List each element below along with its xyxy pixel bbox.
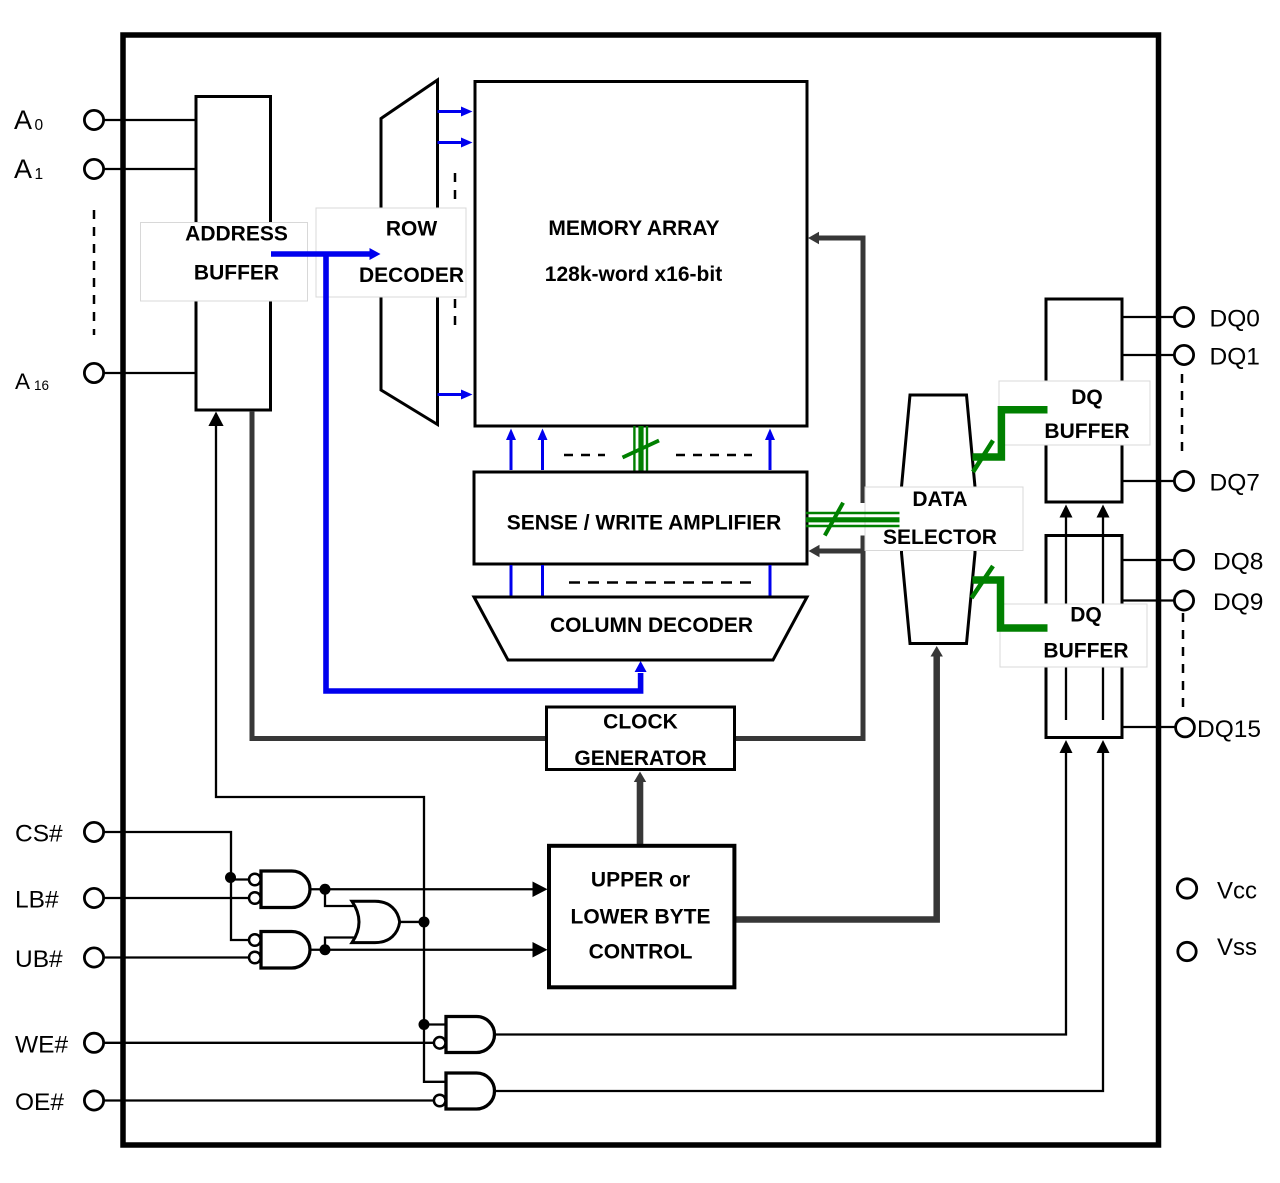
svg-text:BUFFER: BUFFER (1043, 640, 1128, 663)
gate G4 AND WE (446, 1017, 495, 1053)
pin Vss (1178, 942, 1196, 960)
svg-text:CS#: CS# (15, 821, 63, 848)
wire DQ15 (1121, 726, 1176, 728)
pin CS# (84, 822, 103, 841)
wire DQ8 (1122, 559, 1174, 561)
wire OR output (398, 921, 424, 923)
pin DQ1 (1174, 345, 1193, 364)
wire OR output down to WE/OE gates (424, 922, 446, 1082)
blue arrow row decoder to memory 3 (438, 390, 473, 400)
svg-text:DQ7: DQ7 (1210, 470, 1260, 497)
green data bus triple vertical (634, 426, 647, 472)
pin A0 (84, 110, 103, 129)
gate G1 negative-AND CS/LB (261, 871, 310, 908)
svg-text:SELECTOR: SELECTOR (883, 526, 997, 549)
blue arrow memory bottom left 1 (506, 429, 516, 471)
gray line clock to address buffer (252, 411, 547, 739)
pin DQ15 (1176, 718, 1195, 737)
svg-text:UPPER or: UPPER or (591, 869, 690, 892)
DQ ellipsis dashed lower (1182, 613, 1185, 707)
svg-text:DQ9: DQ9 (1213, 589, 1263, 616)
gate G5 AND OE (446, 1073, 495, 1109)
wire WE# (104, 1042, 433, 1044)
dashed line memory-sense gap left (564, 454, 605, 457)
blue arrow row decoder to memory 2 (438, 138, 473, 148)
pin WE# (84, 1033, 103, 1052)
svg-text:DQ1: DQ1 (1210, 344, 1260, 371)
svg-text:CONTROL: CONTROL (589, 941, 693, 964)
pin OE# (84, 1091, 103, 1110)
svg-text:DQ8: DQ8 (1213, 549, 1263, 576)
green slash on horizontal bus (825, 503, 843, 536)
block DATA SELECTOR (902, 395, 976, 644)
dashed line row-decoder outputs upper (454, 173, 457, 205)
block DQ BUFFER upper (1046, 299, 1122, 502)
arrow lower buffer to upper buffer 1 (1060, 505, 1073, 536)
svg-text:Vss: Vss (1217, 934, 1257, 961)
pin UB# (84, 948, 103, 967)
svg-text:A: A (14, 154, 32, 184)
junction CS# (225, 872, 236, 883)
svg-text:16: 16 (34, 378, 49, 393)
pin Vcc (1177, 879, 1196, 898)
green slash on vertical bus (623, 441, 660, 458)
wire OR output to address buffer enable (208, 412, 424, 922)
svg-text:GENERATOR: GENERATOR (574, 747, 706, 770)
green slash upper (973, 441, 993, 473)
DQ ellipsis dashed upper (1181, 374, 1184, 456)
wire A1 (104, 168, 196, 170)
svg-text:A: A (14, 105, 32, 135)
wire OE# (104, 1099, 433, 1101)
wire through lower buffer 1 (1065, 536, 1067, 721)
dashed line sense-column gap (569, 581, 755, 584)
address ellipsis dashed line (93, 210, 96, 335)
block SENSE / WRITE AMPLIFIER (474, 472, 807, 564)
blue line sense-column 1 (510, 565, 513, 597)
wire G4 output to lower DQ buffer (495, 740, 1073, 1035)
blue line sense-column 3 (769, 565, 772, 597)
gate G3 OR (352, 901, 400, 942)
svg-text:1: 1 (35, 166, 44, 183)
gray feedback line clock to memory array (735, 232, 864, 739)
wire G1 to OR gate (325, 889, 358, 906)
svg-text:UB#: UB# (15, 946, 63, 973)
blue arrow memory bottom right (765, 429, 775, 471)
wire A16 (104, 372, 196, 374)
wire G1 output to byte control (310, 882, 548, 898)
svg-text:DQ: DQ (1070, 604, 1102, 627)
svg-text:ROW: ROW (386, 218, 438, 241)
wire CS# (104, 832, 249, 940)
svg-text:Vcc: Vcc (1217, 878, 1257, 905)
block UPPER or LOWER BYTE CONTROL (549, 846, 734, 988)
pin DQ9 (1174, 591, 1193, 610)
block DQ BUFFER lower (1046, 536, 1122, 738)
green bus selector to lower DQ buffer (973, 580, 1048, 628)
junction OR output (419, 916, 430, 927)
wire UB# (104, 956, 249, 958)
gray arrow into sense amp (809, 545, 864, 557)
svg-text:128k-word x16-bit: 128k-word x16-bit (545, 263, 722, 286)
wire DQ0 (1122, 316, 1174, 318)
pin DQ7 (1174, 471, 1193, 490)
green slash lower (972, 566, 994, 598)
svg-text:ADDRESS: ADDRESS (185, 223, 288, 246)
svg-text:DQ0: DQ0 (1210, 306, 1260, 333)
chip outline border (123, 35, 1159, 1145)
gray line byte control to data selector (734, 646, 943, 920)
block CLOCK GENERATOR (547, 707, 735, 770)
block ROW DECODER (381, 80, 438, 425)
svg-text:DECODER: DECODER (359, 264, 464, 287)
svg-text:LB#: LB# (15, 887, 59, 914)
blue line sense-column 2 (541, 565, 544, 597)
wire DQ9 (1122, 599, 1174, 601)
wire CS# branch to gate G1 (231, 878, 249, 880)
pin A1 (84, 159, 103, 178)
dashed line memory-sense gap right (676, 454, 752, 457)
pin LB# (84, 888, 103, 907)
gate G2 negative-AND CS/UB (261, 932, 310, 969)
svg-text:BUFFER: BUFFER (194, 262, 279, 285)
svg-text:CLOCK: CLOCK (603, 711, 678, 734)
svg-text:DQ15: DQ15 (1197, 716, 1261, 743)
svg-text:OE#: OE# (15, 1089, 64, 1116)
wire DQ1 (1122, 354, 1174, 356)
block ADDRESS BUFFER (196, 97, 271, 411)
wire through lower buffer 2 (1102, 536, 1104, 721)
junction G1 output (320, 884, 331, 895)
blue thick bus address buffer to row decoder (271, 248, 381, 260)
svg-text:SENSE / WRITE AMPLIFIER: SENSE / WRITE AMPLIFIER (507, 512, 782, 535)
blue thick bus to column decoder (326, 254, 641, 691)
gray arrow byte control to clock generator (634, 772, 646, 845)
green data bus triple horizontal to data selector (806, 513, 900, 526)
blue arrow memory bottom left 2 (538, 429, 548, 471)
wire A0 (104, 119, 196, 121)
wire LB# (104, 897, 249, 899)
wire G2 output to byte control (310, 942, 548, 958)
svg-text:0: 0 (35, 117, 44, 134)
svg-text:MEMORY ARRAY: MEMORY ARRAY (548, 217, 719, 240)
dashed line row-decoder outputs lower (454, 299, 457, 332)
green bus selector to upper DQ buffer (973, 410, 1048, 457)
svg-text:A: A (15, 369, 30, 394)
svg-text:BUFFER: BUFFER (1044, 420, 1129, 443)
blue arrow row decoder to memory 1 (438, 107, 473, 117)
junction G2 output (320, 944, 331, 955)
svg-text:LOWER BYTE: LOWER BYTE (571, 906, 711, 929)
svg-text:DATA: DATA (912, 488, 967, 511)
pin A16 (84, 363, 103, 382)
wire G5 output to lower DQ buffer (495, 740, 1110, 1091)
block COLUMN DECODER (474, 597, 807, 660)
arrow lower buffer to upper buffer 2 (1097, 505, 1110, 536)
block MEMORY ARRAY (475, 82, 807, 427)
wire G2 to OR gate (325, 938, 358, 950)
svg-text:COLUMN DECODER: COLUMN DECODER (550, 614, 753, 637)
svg-text:WE#: WE# (15, 1031, 68, 1058)
wire branch to G4 input (424, 1023, 446, 1025)
svg-text:DQ: DQ (1071, 386, 1103, 409)
wire DQ7 (1122, 480, 1174, 482)
junction G4 input (419, 1019, 430, 1030)
pin DQ0 (1174, 307, 1193, 326)
pin DQ8 (1174, 550, 1193, 569)
